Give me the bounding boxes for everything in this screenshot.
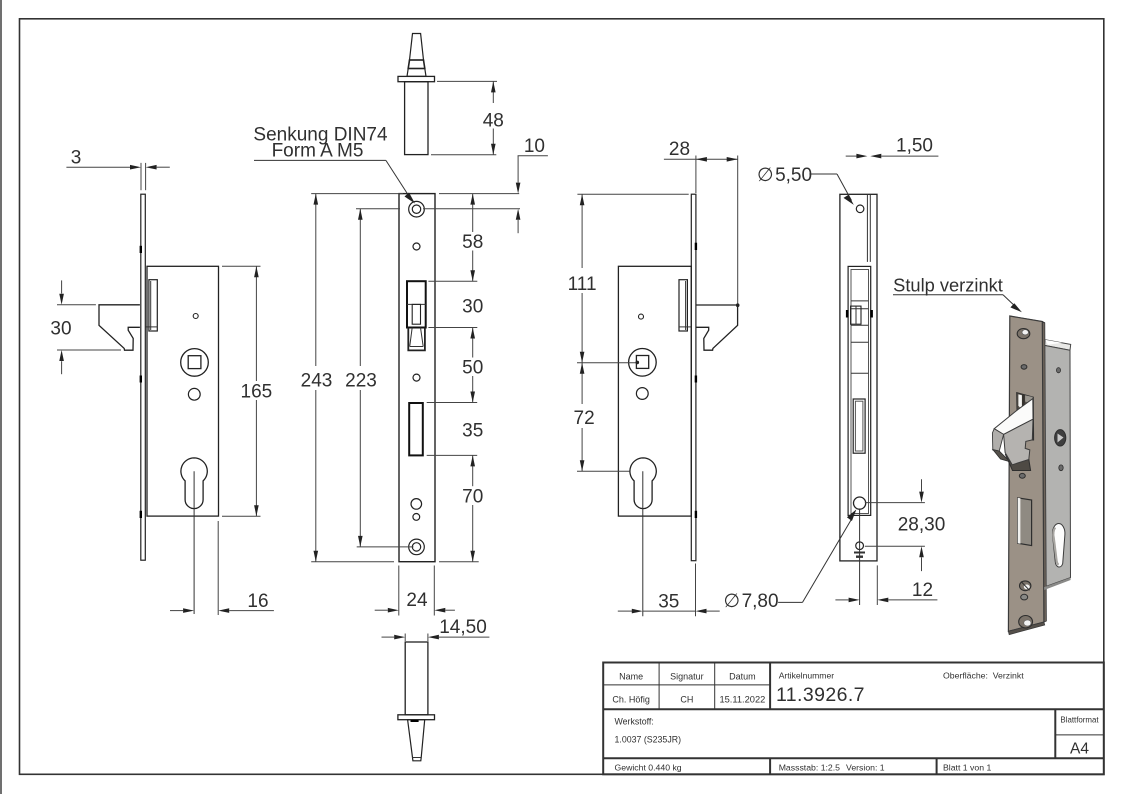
svg-text:3: 3 [71, 148, 82, 169]
svg-text:28,30: 28,30 [898, 515, 946, 536]
svg-text:165: 165 [241, 382, 273, 403]
svg-text:35: 35 [462, 421, 483, 442]
svg-text:12: 12 [912, 580, 933, 601]
svg-text:∅ 7,80: ∅ 7,80 [723, 591, 778, 612]
svg-text:223: 223 [345, 371, 377, 392]
svg-text:Ch. Höfig: Ch. Höfig [612, 694, 650, 704]
svg-text:Name: Name [619, 671, 643, 681]
svg-text:1.0037 (S235JR): 1.0037 (S235JR) [615, 735, 682, 745]
svg-text:Datum: Datum [729, 671, 756, 681]
svg-text:Version: 1: Version: 1 [846, 762, 885, 772]
svg-text:Gewicht 0.440 kg: Gewicht 0.440 kg [615, 762, 682, 772]
svg-text:Massstab: 1:2.5: Massstab: 1:2.5 [779, 762, 840, 772]
svg-text:Signatur: Signatur [670, 671, 704, 681]
svg-text:70: 70 [462, 487, 483, 508]
svg-text:48: 48 [483, 111, 504, 132]
svg-text:24: 24 [406, 590, 428, 611]
svg-text:35: 35 [658, 592, 679, 613]
svg-text:50: 50 [462, 358, 483, 379]
svg-text:72: 72 [574, 408, 595, 429]
svg-text:28: 28 [669, 139, 690, 160]
svg-text:∅ 5,50: ∅ 5,50 [757, 165, 812, 186]
svg-text:16: 16 [247, 591, 268, 612]
svg-text:Stulp verzinkt: Stulp verzinkt [893, 274, 1003, 295]
svg-text:CH: CH [680, 694, 693, 704]
svg-text:Artikelnummer: Artikelnummer [779, 671, 835, 681]
svg-text:111: 111 [568, 274, 597, 295]
svg-text:14,50: 14,50 [439, 617, 487, 638]
svg-text:30: 30 [50, 319, 71, 340]
svg-text:10: 10 [524, 136, 545, 157]
svg-text:58: 58 [462, 232, 483, 253]
svg-text:1,50: 1,50 [896, 136, 933, 157]
svg-text:Form A M5: Form A M5 [272, 141, 364, 162]
svg-text:A4: A4 [1070, 741, 1089, 758]
svg-text:243: 243 [301, 371, 333, 392]
svg-text:Werkstoff:: Werkstoff: [615, 717, 654, 727]
svg-text:11.3926.7: 11.3926.7 [776, 684, 865, 706]
svg-text:15.11.2022: 15.11.2022 [719, 694, 765, 704]
svg-text:Oberfläche: Verzinkt: Oberfläche: Verzinkt [943, 671, 1024, 681]
svg-text:30: 30 [462, 297, 483, 318]
svg-text:Blatt 1 von 1: Blatt 1 von 1 [943, 762, 991, 772]
svg-text:Blattformat: Blattformat [1060, 716, 1099, 725]
